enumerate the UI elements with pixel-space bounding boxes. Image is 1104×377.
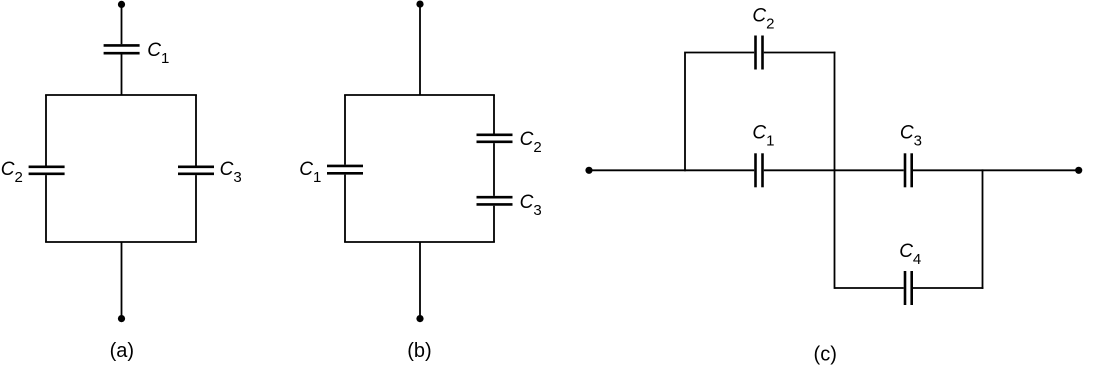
svg-text:C3: C3 [520,192,542,219]
svg-text:C3: C3 [220,159,242,186]
svg-text:(c): (c) [814,344,837,366]
node: circuit (b) bottom terminal [416,315,423,322]
svg-text:(a): (a) [110,340,134,362]
wire: (c) right riser from main line to bottom branch [982,169,984,289]
wire: (b) box left edge (broken at C1) [344,95,346,242]
wire: (a) C1 to box top [121,55,123,96]
wire: (c) middle riser from top branch through main line to bottom branch [834,52,836,289]
wire: (b) box top edge [344,94,495,96]
svg-text:C4: C4 [899,241,921,268]
svg-text:C1: C1 [147,40,169,67]
capacitor C3 (circuit c) [905,153,912,187]
node: circuit (a) bottom terminal [118,315,125,322]
wire: (c) top branch right segment [764,52,836,54]
svg-text:C2: C2 [752,6,774,33]
capacitor C1 (circuit c) [756,153,763,187]
svg-text:C2: C2 [520,129,542,156]
svg-text:(b): (b) [407,340,431,362]
capacitor C2 (circuit c) [756,36,763,70]
capacitor C1 (circuit b) [327,166,363,173]
wire: (a) top terminal to C1 [121,4,123,44]
wire: (b) box bottom edge [344,241,495,243]
svg-text:C1: C1 [299,159,321,186]
wire: (b) box right edge (broken at C2 and C3) [493,95,495,242]
capacitor C2 (circuit b) [477,135,513,142]
wire: (c) bottom branch right segment [913,287,983,289]
node: circuit (c) right terminal [1075,167,1082,174]
node: circuit (b) top terminal [416,1,423,8]
wire: (b) top terminal to box [419,4,421,95]
node: circuit (c) left terminal [585,167,592,174]
wire: (c) bottom branch left segment [835,287,904,289]
wire: (c) left terminal to C1 [589,169,754,171]
capacitor C3 (circuit a) [178,167,214,174]
wire: (c) C1 to C3 [764,169,904,171]
capacitor C1 (circuit a) [104,45,140,53]
node: circuit (a) top terminal [118,1,125,8]
svg-text:C2: C2 [1,159,23,186]
wire: (a) box left edge (broken at C2) [45,95,47,242]
wire: (c) C3 to right terminal [913,169,1079,171]
wire: (c) left riser up to top branch [685,53,754,172]
wire: (a) box right edge (broken at C3) [195,95,197,242]
wire: (a) box top edge [45,94,197,96]
capacitor C2 (circuit a) [29,167,65,174]
capacitor C3 (circuit b) [477,197,513,204]
capacitor C4 (circuit c) [905,271,912,305]
svg-text:C1: C1 [752,122,774,149]
wire: (b) box bottom to bottom terminal [419,242,421,318]
wire: (a) box bottom edge [45,241,197,243]
svg-text:C3: C3 [900,122,922,149]
wire: (a) box bottom to bottom terminal [121,242,123,318]
